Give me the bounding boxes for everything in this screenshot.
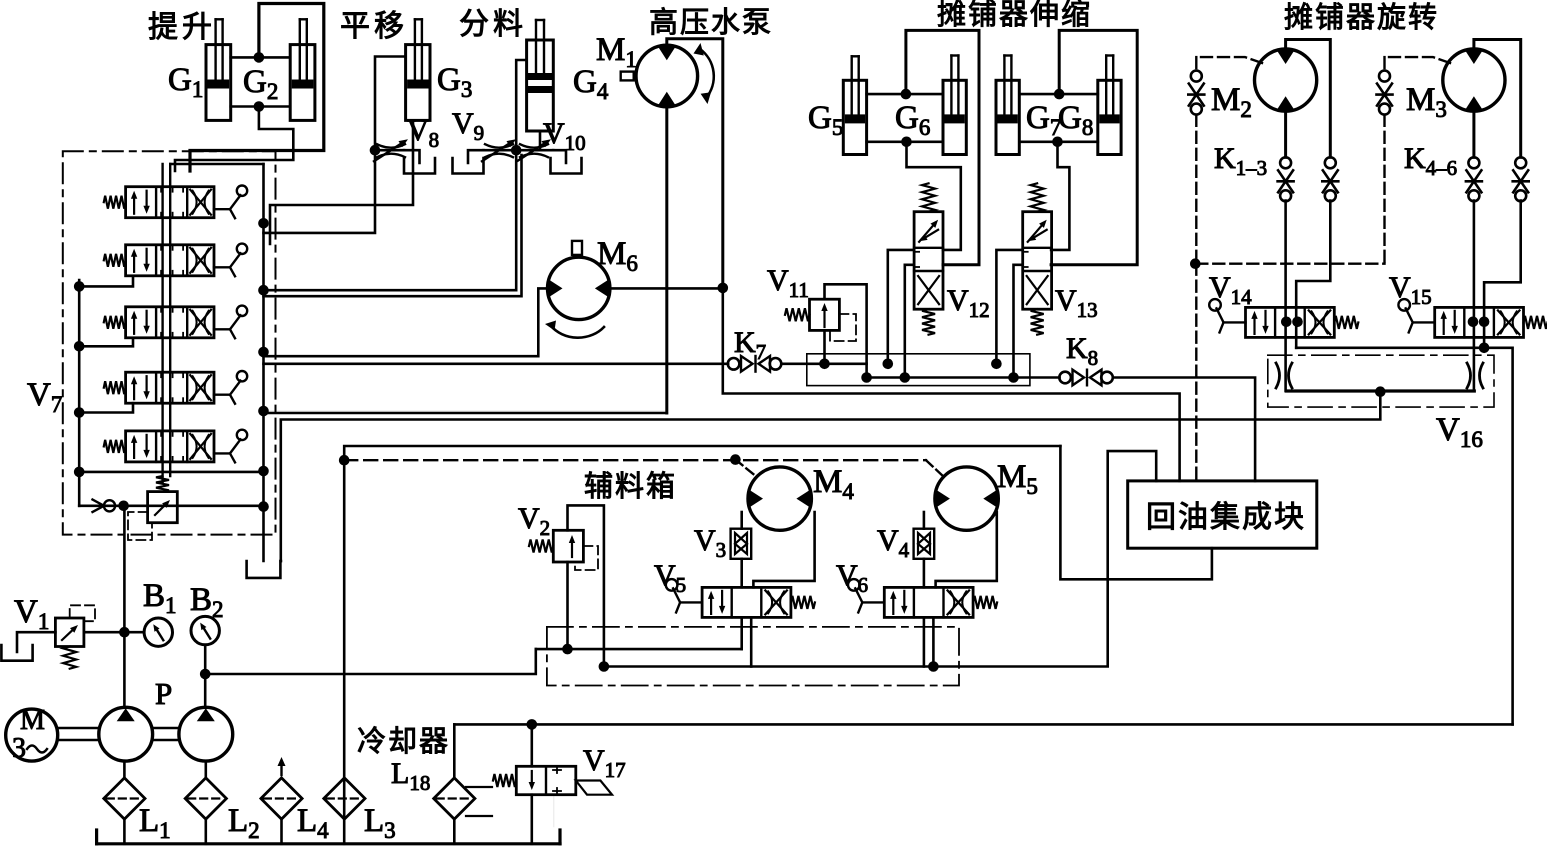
motor M3 [1443, 49, 1505, 111]
wire G5G6 top bracket to V12 [906, 30, 979, 264]
wire V11 bottom [823, 330, 826, 363]
cylinder G1 [206, 45, 231, 121]
filter L1 [104, 778, 145, 819]
directional valve V7 section 3 [126, 307, 214, 338]
wire M2 lines down to V14 [1284, 201, 1287, 391]
wire V7 rail to M1 suction [264, 107, 669, 411]
wire collector wrap under return block [1060, 446, 1212, 579]
directional valve V5 [702, 587, 791, 617]
node V6 leg [928, 661, 939, 672]
pressure gauge B1 [144, 618, 172, 646]
svg-text:摊铺器旋转: 摊铺器旋转 [1284, 1, 1439, 34]
wire G5G6 bottom to V12 [907, 142, 961, 250]
wire M3 lines down to V15 [1473, 201, 1476, 391]
node G1G2 bottom [254, 101, 265, 112]
V13 left ports to manifold [996, 250, 1022, 364]
solenoid valve V12 [914, 212, 943, 310]
svg-text:高压水泵: 高压水泵 [649, 6, 773, 39]
filter L3 [324, 778, 365, 819]
wire M6 left port [264, 288, 548, 356]
wire V7 to K7 [264, 362, 729, 365]
node V11 drain [819, 359, 830, 370]
node V11 bypass [861, 372, 872, 383]
svg-text:回油集成块: 回油集成块 [1146, 501, 1306, 534]
V7 drain tank [247, 561, 281, 578]
dashed auxiliary supply [344, 459, 926, 461]
filter L2 [185, 778, 226, 819]
throttle valve V8 [375, 149, 404, 152]
svg-text:P: P [155, 676, 172, 711]
V1 pilot dashed [70, 605, 95, 621]
wire G1-G2 top line [231, 56, 291, 59]
wire G3 top port to V8 node [375, 57, 406, 151]
wire G7G8 bottom to V13 [1051, 142, 1069, 250]
breather L4 [261, 778, 302, 819]
V7 left rail [78, 280, 81, 506]
dashed to M4 [735, 460, 757, 477]
wire L18 riser [453, 724, 456, 778]
directional valve V15 [1435, 307, 1524, 337]
node return join [1479, 343, 1490, 354]
throttle valve V2 [553, 530, 583, 562]
motor M4 [748, 467, 811, 530]
wire M4 right port [753, 512, 814, 587]
V12 left ports to manifold [888, 250, 914, 364]
node G5G6 bottom [901, 137, 912, 148]
wire P1 supply riser [123, 506, 126, 708]
cylinder G2 [290, 45, 315, 121]
coupling K7 [728, 358, 740, 370]
wire V1 to pump line [84, 631, 144, 634]
dash-dot box 辅料箱 manifold [547, 627, 959, 686]
throttle valve V10 [516, 149, 553, 152]
V1 tank [17, 632, 55, 652]
tank at V9 [468, 150, 484, 163]
wire V9V10 node down to V7 pair [264, 150, 517, 290]
node V16 drain [1375, 386, 1386, 397]
wire K7 to manifold [781, 362, 866, 365]
V7 left rail stubs to valves [79, 276, 133, 287]
node V15 port a [1468, 317, 1479, 328]
wire M6 right port [610, 287, 723, 290]
wire G4 top port [516, 60, 526, 150]
wire M1M6 line to return manifold [723, 288, 1180, 481]
wire V6 legs [923, 617, 926, 666]
wire G7-G8 bottom [1019, 141, 1098, 144]
node auxiliary feed [339, 455, 350, 466]
throttle valve V4 [914, 529, 935, 559]
wire G7G8 top bracket to V13 [1051, 30, 1137, 264]
cylinder G3 [406, 45, 430, 121]
svg-text:平移: 平移 [340, 10, 408, 43]
node M1/M6 junction [718, 283, 729, 294]
wire L1 to tank [123, 819, 126, 844]
wire M4 left port [740, 512, 743, 529]
node V13 leg a [991, 359, 1002, 370]
check pair K4-6 left [1468, 157, 1479, 168]
wire M3 top port bracket [1474, 40, 1521, 158]
directional valve V7 section 2 [126, 245, 214, 276]
directional valve V7 section 1 [126, 187, 214, 218]
pressure gauge B2 [191, 616, 219, 644]
M3 drain dashed [1385, 57, 1451, 63]
wire L2 to tank [205, 819, 208, 844]
motor M1 (high pressure water pump) [636, 45, 698, 107]
return oil manifold block 回油集成块 [1128, 481, 1317, 548]
motor M2 [1255, 49, 1317, 111]
node V12 leg a [883, 359, 894, 370]
pump P2 [179, 707, 233, 761]
node V13 leg b [1008, 372, 1019, 383]
relief valve in V7 [148, 492, 178, 523]
manifold line b [867, 376, 1060, 379]
wire cooler return line [454, 723, 1512, 726]
wire M5 right port [936, 512, 997, 587]
motor M5 [935, 467, 998, 530]
wire aux manifold step [205, 649, 536, 674]
node G5G6 top [901, 89, 912, 100]
wire aux return riser [604, 451, 1156, 666]
accumulator block V16 [1268, 355, 1494, 407]
cooler L18 [434, 778, 475, 819]
node V14 port b [1292, 317, 1303, 328]
wire B2 down to pump P2 [204, 645, 207, 708]
V17 tank [553, 795, 555, 827]
directional valve V14 [1246, 307, 1335, 337]
V7 inner feed lines [169, 164, 171, 476]
cylinder G5 [843, 80, 866, 154]
directional valve V6 [884, 587, 973, 617]
valve block V7 dashed boundary [63, 151, 276, 534]
node V2 leg a [562, 644, 573, 655]
wire P2 suction [205, 761, 208, 778]
wire M1 bottom port down [665, 107, 668, 413]
node V14 port a [1281, 317, 1292, 328]
wire G4 bottom port [539, 131, 542, 150]
motor M6 [548, 257, 610, 319]
svg-text:冷却器: 冷却器 [357, 725, 450, 758]
M2 drain dashed [1196, 57, 1262, 63]
wire V5 legs [740, 617, 743, 649]
node B2 junction [200, 669, 211, 680]
throttle valve V3 [731, 529, 752, 559]
tank at V10 [553, 150, 566, 163]
node M4 branch [730, 454, 741, 465]
V7 return tank bracket [279, 560, 282, 563]
M1 left stub [621, 72, 634, 81]
M6 rotation arrow [551, 326, 604, 338]
node V2 leg b [599, 661, 610, 672]
V7 right rail [262, 164, 265, 561]
svg-text:分料: 分料 [459, 8, 527, 41]
dashed to M5 [926, 460, 944, 477]
directional valve V7 section 5 [126, 431, 214, 462]
V16 coupling symbols [1276, 363, 1280, 388]
node G1G2 top [254, 52, 265, 63]
directional valve V7 section 4 [126, 372, 214, 403]
wire V11 bypass over [825, 284, 867, 377]
wire V14/V15 return line [1296, 348, 1512, 725]
wire V2 down [566, 562, 569, 649]
V7 left rail nodes [74, 281, 85, 292]
manifold box under V12V13 [807, 354, 1030, 386]
cylinder G6 [943, 80, 966, 154]
relief valve pilot dashed [128, 512, 152, 540]
relief valve V11 [810, 299, 840, 330]
wire M2 top port bracket [1286, 40, 1331, 158]
wire G5-G6 bottom [867, 141, 943, 144]
node G7G8 top [1054, 89, 1065, 100]
wire M1 suction horizontal [264, 412, 667, 415]
V16 bottom line [1286, 389, 1474, 392]
wire G1G2 bottom port to V7 [175, 107, 293, 172]
V11 pilot dashed [830, 314, 856, 341]
throttle valve V9 [484, 149, 517, 152]
svg-text:3: 3 [12, 733, 26, 764]
electric motor M 3~ [6, 709, 58, 761]
svg-text:提升: 提升 [148, 11, 216, 44]
valve V17 [530, 724, 533, 766]
dashed drain manifold [1196, 263, 1384, 265]
motor-pump shafts [58, 727, 99, 729]
wire K8 to return block [1113, 378, 1255, 481]
cylinder G4 [527, 40, 554, 131]
wire P1 suction [123, 761, 126, 778]
wire G5-G6 top [867, 93, 943, 96]
node V17 junction [527, 719, 538, 730]
node G7G8 bottom [1052, 137, 1063, 148]
tank at V8 [404, 150, 420, 163]
V2 pilot dashed [575, 546, 598, 570]
cylinder G7 [996, 80, 1019, 154]
check pair K1-3 left [1280, 157, 1291, 168]
node V15 port b [1479, 317, 1490, 328]
wire V2 bypass [568, 505, 604, 666]
node V9V10 junction [511, 145, 522, 156]
check valve at pump inlet to V7 [79, 504, 263, 507]
wire return collector to L3 [344, 446, 1060, 844]
wire G1G2 top port over-bracket to V7 [190, 4, 324, 172]
cylinder G8 [1098, 80, 1121, 154]
node V12 leg b [900, 372, 911, 383]
svg-text:摊铺器伸缩: 摊铺器伸缩 [937, 0, 1092, 31]
wire L4 to tank [280, 819, 283, 844]
relief valve V1 [55, 618, 84, 647]
wire V17 out [530, 795, 533, 844]
shutoff valve K8 [1059, 372, 1071, 384]
svg-text:M: M [20, 705, 45, 736]
wire aux manifold line a [536, 648, 742, 651]
check pair K1-3 right [1325, 157, 1336, 168]
wire G3 bottom port down [270, 120, 413, 244]
svg-text:辅料箱: 辅料箱 [584, 470, 677, 503]
wire M1 top port to right down-line [667, 39, 723, 288]
check pair K4-6 right [1515, 157, 1526, 168]
wire V4 to V6 [923, 559, 926, 588]
wire M3 bottom port [1472, 111, 1475, 157]
V17 actuator [576, 781, 612, 795]
wire G7-G8 top [1019, 93, 1098, 96]
wire V3 to V5 [740, 559, 743, 588]
V7 right rail nodes [258, 218, 269, 229]
wire V8 node down to V7 [264, 150, 376, 233]
node V1 junction [119, 627, 130, 638]
wire V16 drain to tank return [281, 392, 1381, 561]
node pump P1 feed [118, 501, 129, 512]
bottom tank line [97, 842, 560, 845]
M1 rotation arrow [700, 49, 714, 98]
wire M2 bottom port [1284, 111, 1287, 157]
wire G1-G2 bottom line [231, 105, 291, 108]
node V8 junction [370, 145, 381, 156]
wire M5 left port [923, 512, 926, 529]
pump P1 [99, 707, 153, 761]
solenoid valve V13 [1023, 212, 1052, 310]
